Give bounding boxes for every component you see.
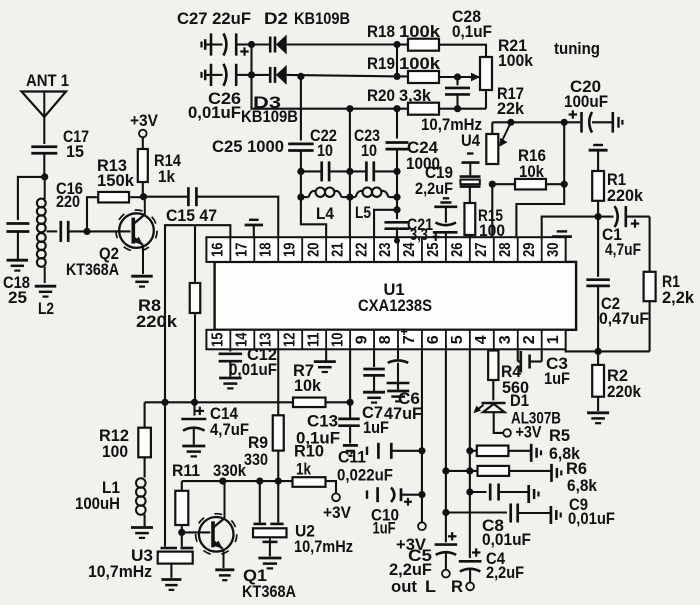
svg-text:R19: R19	[367, 55, 395, 73]
op-amp U1 CXA1238S IC body	[215, 262, 576, 330]
capacitor C23 10	[350, 127, 397, 181]
svg-text:C27 22uF: C27 22uF	[177, 9, 251, 28]
svg-text:1k: 1k	[158, 168, 176, 186]
svg-text:0,01uF: 0,01uF	[568, 510, 615, 528]
resistor R12 100	[99, 427, 151, 461]
svg-text:2,2uF: 2,2uF	[486, 564, 524, 582]
inductor L4	[301, 188, 350, 224]
svg-text:10,7mHz: 10,7mHz	[88, 563, 152, 581]
svg-text:11: 11	[305, 332, 322, 347]
svg-text:29: 29	[521, 242, 538, 257]
node R14/R13/C15/Q2 collector	[140, 193, 147, 200]
svg-text:R5: R5	[549, 427, 570, 445]
node R5 row pin5	[466, 447, 473, 454]
svg-text:2,2uF: 2,2uF	[415, 180, 453, 198]
svg-text:28: 28	[497, 242, 514, 257]
svg-text:R11: R11	[172, 462, 200, 480]
wire L2 tap to C16	[47, 230, 58, 232]
node C22 right	[346, 168, 353, 175]
svg-text:KT368A: KT368A	[66, 261, 119, 279]
svg-text:D1: D1	[510, 392, 529, 410]
wire D3 to R19 row	[287, 75, 397, 77]
ground below C14	[182, 445, 205, 448]
node cap row pin5	[466, 488, 473, 495]
svg-text:3: 3	[497, 335, 514, 344]
svg-text:26: 26	[449, 242, 466, 257]
svg-text:220: 220	[56, 193, 80, 211]
resistor R1 2.2k	[644, 217, 695, 352]
wire node to C18 branch	[18, 177, 45, 220]
svg-text:KT368A: KT368A	[242, 583, 296, 601]
capacitor C25 1000 on pin19 riser	[212, 76, 314, 168]
antenna ANT 1	[22, 72, 70, 117]
svg-text:23: 23	[377, 242, 394, 257]
transistor Q2 KT368A	[66, 197, 157, 279]
capacitor C14 4.7uF electrolytic	[181, 402, 249, 444]
wire net to R12	[144, 402, 146, 427]
svg-text:C11: C11	[338, 449, 366, 467]
node L4 right	[346, 194, 353, 201]
svg-text:3,3k: 3,3k	[399, 87, 432, 105]
svg-text:24: 24	[401, 242, 418, 257]
svg-text:D2: D2	[264, 9, 288, 28]
node L5 right	[393, 194, 400, 201]
svg-text:22k: 22k	[497, 100, 525, 118]
resonator U2 10.7mHz	[253, 481, 353, 556]
svg-text:2,2uF: 2,2uF	[389, 561, 432, 579]
node D3 row / pin19 riser	[297, 73, 304, 80]
svg-text:15: 15	[210, 332, 227, 347]
wire R11 to Q1 base	[182, 531, 211, 533]
svg-text:100k: 100k	[399, 23, 441, 41]
svg-text:220k: 220k	[607, 187, 644, 205]
capacitor C21 3.3 on pin23 riser	[385, 171, 434, 244]
resistor R9 330	[244, 415, 284, 481]
resistor R8 220k	[136, 283, 200, 402]
resistor R7 10k	[293, 362, 350, 407]
node C27/D2	[248, 41, 255, 48]
resistor R13 150k	[87, 157, 144, 231]
wire pin27 riser and R17 top	[491, 184, 493, 237]
svg-text:100uF: 100uF	[564, 93, 608, 111]
transistor Q1 KT368A	[196, 481, 296, 601]
wire R17 top rail to C20	[492, 121, 564, 123]
svg-text:0,022uF: 0,022uF	[337, 467, 393, 485]
wire R18 to R21 top	[439, 45, 486, 57]
svg-text:C25 1000: C25 1000	[212, 138, 284, 156]
node R16 right	[561, 181, 568, 188]
capacitor C10 1uF electrolytic	[367, 487, 422, 537]
svg-text:2: 2	[521, 335, 538, 344]
svg-text:18: 18	[257, 242, 274, 257]
wire pin23 riser D2-D3	[396, 45, 398, 77]
node C20 branch	[561, 119, 568, 126]
svg-text:8: 8	[377, 335, 394, 344]
node R19/C28	[454, 73, 461, 80]
wiper arrow into R21	[471, 73, 480, 82]
capacitor C19 2.2uF on pin25	[415, 164, 458, 241]
node rail/pin23 riser	[393, 105, 400, 112]
wire C15 to pin 18	[196, 197, 278, 238]
svg-text:0,1uF: 0,1uF	[452, 23, 492, 41]
node Q2 base	[83, 228, 90, 235]
wire C16 to Q2 base node	[68, 230, 87, 232]
svg-text:R10: R10	[294, 443, 324, 461]
svg-text:tuning: tuning	[554, 40, 600, 58]
svg-text:out: out	[391, 578, 418, 596]
inductor L1 100uH	[75, 457, 146, 526]
svg-text:9: 9	[353, 335, 370, 344]
capacitor C5 2.2uF output L	[389, 532, 457, 596]
capacitor C2 0.47uF	[586, 217, 649, 352]
terminal jack C8/C9	[550, 506, 553, 524]
svg-text:19: 19	[281, 242, 298, 257]
resistor R4 560 on pin 4	[488, 349, 529, 400]
svg-text:1: 1	[545, 335, 562, 344]
resistor R2 220k	[592, 351, 642, 411]
capacitor C1 4.7uF	[598, 206, 650, 259]
wire pin19 riser to pin20 jog	[301, 171, 326, 237]
ground below L1	[131, 526, 153, 529]
node R6 row pin6	[442, 467, 449, 474]
svg-text:220k: 220k	[136, 313, 178, 331]
svg-text:1k: 1k	[296, 461, 312, 479]
svg-text:100uH: 100uH	[75, 495, 120, 513]
+3V supply terminal above R14	[130, 112, 158, 137]
terminal jack R6	[550, 464, 553, 482]
capacitor C3 1uF pins 3-2	[518, 349, 570, 388]
wire pin 29 to node	[542, 217, 598, 238]
node C11/pin7	[418, 447, 425, 454]
svg-text:14: 14	[234, 332, 251, 347]
wire base node to Q2	[87, 230, 131, 232]
wire R10 base row	[182, 480, 293, 482]
wire pin22 jog	[374, 210, 397, 237]
capacitor C15 47	[144, 187, 218, 225]
svg-text:1uF: 1uF	[544, 370, 570, 388]
node rail/C28 bottom	[454, 105, 461, 112]
svg-text:KB109B: KB109B	[241, 108, 298, 126]
ground below R2	[587, 411, 609, 414]
ground below L2	[35, 285, 57, 288]
node C8 row pin6	[442, 509, 449, 516]
svg-text:4,7uF: 4,7uF	[605, 241, 641, 259]
resistor R11 330k	[172, 462, 247, 532]
node U2 left	[256, 478, 263, 485]
resistor R6 6.8k	[446, 460, 598, 495]
node R8/C14	[191, 399, 198, 406]
resistor R1 220k	[592, 150, 644, 216]
svg-text:R9: R9	[248, 434, 268, 452]
svg-text:CXA1238S: CXA1238S	[358, 296, 432, 315]
node D3 row / pin23 riser	[393, 73, 400, 80]
wire R16 right to pin 28	[516, 184, 564, 237]
capacitor C20 100uF to tuning terminal	[564, 78, 622, 133]
svg-text:R6: R6	[566, 460, 587, 478]
svg-text:150k: 150k	[97, 172, 135, 190]
resistor R5 6.8k	[470, 427, 581, 463]
node R17 wiper	[507, 119, 514, 126]
wire C27 node down to rail	[252, 45, 409, 109]
svg-text:27: 27	[473, 242, 490, 257]
svg-text:100: 100	[102, 443, 128, 461]
diode D2 KB109B varactor	[252, 9, 351, 55]
capacitor C27 22uF input electrolytic	[177, 9, 252, 56]
svg-text:12: 12	[281, 332, 298, 347]
svg-text:25: 25	[425, 242, 442, 257]
capacitor C11 0.022uF	[337, 443, 422, 485]
svg-text:100k: 100k	[399, 55, 441, 73]
node pin23 riser base	[394, 238, 400, 244]
ground below Q2 emitter	[131, 275, 153, 278]
svg-text:330: 330	[244, 451, 268, 469]
node U3 riser	[161, 399, 168, 406]
svg-text:20: 20	[305, 242, 322, 257]
capacitor C12 0.01uF on pin 15	[219, 346, 277, 379]
wire R20 to R21 bottom	[439, 108, 486, 110]
svg-text:10k: 10k	[294, 377, 322, 395]
resistor R20 3.3k in rail	[367, 87, 439, 115]
+3V terminal pin7 rail	[396, 522, 426, 554]
ground above R1 220k	[589, 149, 608, 152]
svg-text:6: 6	[425, 335, 442, 344]
U1 top pin strip pins 16-30	[206, 237, 565, 262]
capacitor C4 2.2uF output R	[451, 548, 524, 596]
svg-text:L: L	[425, 578, 436, 596]
svg-text:R20: R20	[367, 87, 395, 105]
capacitor C18 25	[3, 224, 30, 308]
resistor R15 100	[464, 203, 505, 240]
node antenna tank junction	[41, 173, 48, 180]
resonator U4 with ground	[460, 132, 481, 203]
svg-text:R: R	[451, 578, 463, 596]
svg-text:47uF: 47uF	[384, 405, 422, 423]
node C23 right	[393, 168, 400, 175]
svg-text:15: 15	[66, 143, 84, 161]
node R11/Q1 base/U3	[178, 529, 185, 536]
svg-text:330k: 330k	[213, 462, 247, 480]
wire pin21 riser	[349, 109, 351, 238]
capacitor C8 0.01uF	[446, 504, 550, 550]
capacitor C22 10	[301, 127, 350, 181]
wire bracket to R8	[194, 225, 196, 283]
resistor R10 1k	[293, 443, 337, 494]
wire D2 to R18 row	[287, 43, 397, 45]
potentiometer R17 22k	[486, 85, 525, 164]
resonator U3 10.7mHz	[88, 402, 193, 581]
svg-text:4,7uF: 4,7uF	[210, 421, 249, 439]
node C26/D3	[248, 71, 255, 78]
svg-text:3,3: 3,3	[410, 226, 428, 244]
svg-text:+3V: +3V	[130, 112, 158, 130]
label C9 0.01uF	[568, 496, 615, 528]
capacitor C24 1000 on pin23 riser	[386, 109, 441, 173]
capacitor C6 47uF electrolytic on pin 8	[384, 349, 422, 423]
svg-text:C15 47: C15 47	[166, 207, 217, 225]
ground below C6	[387, 390, 409, 393]
svg-text:22: 22	[353, 242, 370, 257]
node pin22 jog	[393, 206, 400, 213]
ground below C13	[343, 444, 358, 447]
svg-text:L4: L4	[316, 205, 335, 223]
U1 bottom pin strip pins 15-1	[206, 325, 565, 349]
svg-text:1uF: 1uF	[373, 520, 396, 538]
capacitor row pin5 to jack	[470, 484, 528, 501]
svg-text:21: 21	[329, 242, 346, 257]
+3V terminal D1	[503, 424, 541, 442]
node rail/pin21 riser	[346, 105, 353, 112]
svg-text:100k: 100k	[498, 52, 534, 70]
node C22 left	[297, 168, 304, 175]
capacitor C28 0.1uF	[445, 8, 492, 109]
svg-text:13: 13	[257, 332, 274, 347]
svg-text:L5: L5	[355, 204, 371, 222]
node R6 row pin5	[466, 467, 473, 474]
svg-text:10,7mHz: 10,7mHz	[294, 538, 353, 556]
svg-text:L2: L2	[38, 300, 54, 318]
resistor R18 100k	[367, 23, 441, 51]
svg-text:6,8k: 6,8k	[567, 477, 598, 495]
wire C17 to node	[43, 153, 45, 177]
capacitor C17 15	[31, 128, 89, 161]
terminal jack mid	[527, 485, 530, 503]
ground below C18	[7, 259, 29, 262]
wire D1 to +3V terminal	[494, 412, 504, 433]
capacitor C16 220	[56, 180, 83, 242]
inductor L5	[350, 188, 397, 223]
capacitor C26 0.01uF	[188, 64, 252, 122]
ground below U3	[161, 578, 181, 581]
wire R11 node to U3 right plate	[181, 532, 183, 546]
node pin1/R2/C2	[595, 348, 602, 355]
node D2 row / pin23 riser	[393, 41, 400, 48]
LED D1 AL307B	[473, 392, 561, 428]
inductor L2 tank coil	[37, 177, 54, 318]
ground above pin 30	[552, 231, 572, 236]
ground above pin 17	[245, 220, 263, 237]
svg-text:17: 17	[234, 242, 251, 257]
wire pin 16 bracket to R8 and U3 line	[165, 225, 230, 402]
ground below C12	[219, 377, 242, 380]
svg-text:2,2k: 2,2k	[662, 289, 695, 307]
resistor R19 100k	[367, 55, 441, 83]
svg-text:KB109B: KB109B	[294, 9, 350, 28]
wire pin 6 long rail	[445, 349, 447, 542]
svg-text:4: 4	[473, 335, 490, 344]
+3V terminal R10	[323, 493, 351, 522]
svg-text:0,01uF: 0,01uF	[482, 531, 531, 549]
potentiometer R21 100k tuning	[480, 37, 534, 109]
wire main left net horizontal	[145, 401, 293, 403]
wire pin 5 long rail	[469, 349, 471, 558]
resistor R16 10k	[492, 147, 564, 189]
wire R16 right up to C20 node	[563, 122, 565, 184]
resistor R14 1k	[138, 137, 182, 197]
svg-text:+3V: +3V	[516, 424, 542, 442]
ground below U2	[258, 557, 281, 560]
svg-text:+: +	[400, 325, 407, 339]
node R7/pin10/C13	[347, 399, 354, 406]
svg-text:5: 5	[449, 335, 466, 344]
wire pin 10 riser	[349, 349, 351, 402]
ground below C7	[363, 391, 385, 394]
wire pin 7 long rail	[421, 349, 423, 522]
svg-text:R18: R18	[367, 23, 395, 41]
svg-text:ANT 1: ANT 1	[26, 72, 69, 90]
terminal jack R5	[530, 444, 533, 462]
capacitor C7 1uF on pin 9	[362, 349, 389, 437]
svg-text:0,01uF: 0,01uF	[188, 104, 241, 122]
wiper arrow into R17	[501, 122, 511, 143]
svg-text:16: 16	[210, 242, 227, 257]
svg-text:10: 10	[329, 332, 346, 347]
wire pin 1 row	[566, 349, 650, 351]
svg-text:U4: U4	[461, 132, 481, 150]
svg-text:C13: C13	[307, 413, 338, 431]
svg-text:0,01uF: 0,01uF	[229, 361, 277, 379]
wire antenna to C17	[43, 117, 45, 144]
svg-text:30: 30	[545, 242, 562, 257]
ground below Q1 emitter	[215, 568, 234, 571]
node R16 left / R17 bottom	[489, 181, 496, 188]
svg-text:10: 10	[361, 142, 377, 160]
node Q1 collector row	[219, 478, 226, 485]
diode D3 KB109B varactor	[241, 65, 298, 126]
svg-text:220k: 220k	[607, 383, 642, 401]
capacitor C13 0.1uF	[296, 402, 360, 447]
wire pin 13 riser to R9	[277, 349, 279, 415]
svg-text:0,47uF: 0,47uF	[599, 310, 649, 328]
svg-text:25: 25	[8, 289, 27, 307]
node U2 right / R9	[275, 478, 282, 485]
wire C18 to ground	[17, 232, 19, 260]
node R1/C1/C2/pin29	[595, 213, 602, 220]
wire R19 to C28 node and R21 wiper	[439, 76, 480, 78]
svg-text:10k: 10k	[519, 163, 545, 181]
svg-text:10: 10	[317, 142, 333, 160]
node L4 left	[297, 194, 304, 201]
ground below pin 11	[314, 349, 336, 372]
node C10/pin7	[418, 491, 425, 498]
svg-text:+3V: +3V	[323, 504, 351, 522]
